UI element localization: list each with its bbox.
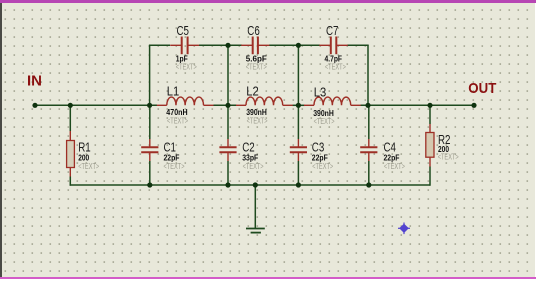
node node1 <box>147 103 152 108</box>
value 5.6pF <box>246 53 267 63</box>
property text L1 <box>167 117 188 126</box>
value 4.7pF <box>325 53 343 63</box>
svg-text:33pF: 33pF <box>242 152 258 162</box>
wire: riser node2 top rail to main rail <box>227 45 229 105</box>
resistor R2 <box>426 124 434 167</box>
wire: R2 bottom to bottom rail <box>429 167 431 186</box>
wire: main rail down to R2 top <box>429 105 431 124</box>
value 200 R1 <box>78 152 89 162</box>
node label IN <box>27 72 42 89</box>
origin marker (blue diamond) <box>398 223 410 235</box>
node C1 bottom <box>147 182 152 187</box>
node node2 <box>225 103 230 108</box>
wire: riser node3 top rail to main rail <box>297 45 299 105</box>
wire: riser node1 (left) top rail to main rail <box>149 45 151 105</box>
wire: main rail down to C1 <box>149 105 151 139</box>
svg-text:L1: L1 <box>167 85 180 99</box>
value 390nH L3 <box>313 108 334 118</box>
wire: main rail down to C4 <box>368 105 370 139</box>
capacitor C4 <box>360 139 377 161</box>
capacitor C2 <box>219 139 236 161</box>
node node4 <box>365 103 370 108</box>
label C6 <box>247 24 260 38</box>
value 22pF C1 <box>164 152 180 162</box>
wire: main rail down to C3 <box>297 105 299 139</box>
wire: main rail from IN node to L1 left lead <box>35 104 157 106</box>
inductor L3 <box>304 97 361 105</box>
svg-text:22pF: 22pF <box>384 152 400 162</box>
svg-text:<TEXT>: <TEXT> <box>384 162 405 171</box>
label R2 <box>438 133 451 147</box>
svg-text:<TEXT>: <TEXT> <box>167 117 188 126</box>
svg-text:<TEXT>: <TEXT> <box>246 63 267 72</box>
property text C1 <box>164 162 185 171</box>
wire: C4 to bottom rail <box>368 161 370 185</box>
property text R1 <box>78 162 99 171</box>
wire: top rail between C5 and C6 <box>199 44 242 46</box>
label C2 <box>242 141 255 155</box>
svg-text:OUT: OUT <box>468 80 496 97</box>
svg-text:IN: IN <box>27 72 42 89</box>
wire: C1 to bottom rail <box>149 161 151 185</box>
label L3 <box>314 85 327 99</box>
svg-text:<TEXT>: <TEXT> <box>247 117 268 126</box>
wire: C3 to bottom rail <box>297 161 299 185</box>
node label OUT <box>468 80 496 97</box>
label C4 <box>384 141 397 155</box>
property text L3 <box>314 117 335 126</box>
resistor R1 <box>67 131 75 177</box>
node node2 top <box>225 43 230 48</box>
value 22pF C3 <box>312 152 328 162</box>
wire: main rail down to R1 top <box>69 105 71 131</box>
wire: top rail left of C5 <box>149 44 170 46</box>
inductor L1 <box>157 97 214 105</box>
capacitor C6 <box>241 37 269 55</box>
node C2 bottom <box>225 182 230 187</box>
wire: bottom ground rail <box>70 184 431 186</box>
property text C5 <box>176 63 197 72</box>
wire: main rail between L1 and L2 <box>214 104 237 106</box>
node R2 top <box>427 103 432 108</box>
label R1 <box>78 141 91 155</box>
svg-text:22pF: 22pF <box>164 152 180 162</box>
value 200 R2 <box>438 144 449 154</box>
node C3 bottom <box>296 182 301 187</box>
wire: main rail from L3 to OUT node <box>361 104 475 106</box>
wire: C2 to bottom rail <box>227 161 229 185</box>
label L1 <box>167 85 180 99</box>
value 22pF C4 <box>384 152 400 162</box>
svg-text:<TEXT>: <TEXT> <box>325 63 346 72</box>
node OUT <box>471 103 476 108</box>
property text C3 <box>312 162 333 171</box>
ground <box>246 185 265 233</box>
node ground stem <box>253 182 258 187</box>
svg-text:<TEXT>: <TEXT> <box>438 152 459 161</box>
value 33pF <box>242 152 258 162</box>
label C3 <box>312 141 325 155</box>
svg-text:<TEXT>: <TEXT> <box>314 117 335 126</box>
node node3 <box>296 103 301 108</box>
capacitor C7 <box>319 37 348 55</box>
label L2 <box>246 85 259 99</box>
capacitor C3 <box>290 139 307 161</box>
svg-text:C7: C7 <box>326 24 339 38</box>
inductor L2 <box>236 97 293 105</box>
label C5 <box>177 24 190 38</box>
svg-text:22pF: 22pF <box>312 152 328 162</box>
capacitor C5 <box>170 37 199 55</box>
node node3 top <box>296 43 301 48</box>
node R1 top <box>68 103 73 108</box>
svg-text:<TEXT>: <TEXT> <box>164 162 185 171</box>
wire: main rail between L2 and L3 <box>293 104 305 106</box>
property text C6 <box>246 63 267 72</box>
node C4 bottom <box>366 182 371 187</box>
capacitor C1 <box>141 139 158 161</box>
svg-text:C6: C6 <box>247 24 260 38</box>
property text C7 <box>325 63 346 72</box>
label C1 <box>164 141 177 155</box>
property text C2 <box>243 162 264 171</box>
node IN <box>32 103 37 108</box>
svg-text:<TEXT>: <TEXT> <box>78 162 99 171</box>
svg-text:<TEXT>: <TEXT> <box>176 63 197 72</box>
value 390nH L2 <box>246 107 267 117</box>
wire: top rail right of C7 <box>347 44 369 46</box>
wire: riser node4 (right) top rail to main rail <box>367 45 369 105</box>
label C7 <box>326 24 339 38</box>
property text C4 <box>384 162 405 171</box>
svg-text:<TEXT>: <TEXT> <box>312 162 333 171</box>
svg-text:L3: L3 <box>314 85 327 99</box>
wire: top rail between C6 and C7 <box>269 44 320 46</box>
svg-text:L2: L2 <box>246 85 259 99</box>
svg-text:200: 200 <box>78 152 89 162</box>
value 1pF <box>176 53 188 63</box>
wire: R1 bottom to bottom rail <box>69 177 71 186</box>
value 470nH <box>166 107 187 117</box>
svg-text:<TEXT>: <TEXT> <box>243 162 264 171</box>
svg-text:C5: C5 <box>177 24 190 38</box>
property text R2 <box>438 152 459 161</box>
property text L2 <box>247 117 268 126</box>
wire: main rail down to C2 <box>227 105 229 139</box>
